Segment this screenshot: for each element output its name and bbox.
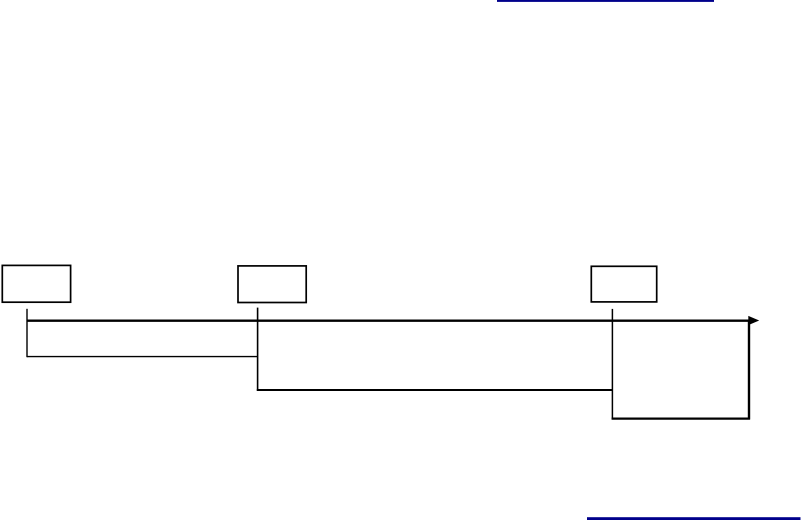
timeline axis (main arrow line) — [27, 320, 750, 322]
hyperlink underline (top of page, cut off) — [497, 0, 714, 2]
box B3 (right milestone box) — [591, 266, 656, 302]
span bracket 3 (under B3, ends at arrow end) — [612, 418, 750, 420]
return vertical up to axis at arrow end — [748, 320, 750, 420]
arrowhead — [748, 316, 759, 325]
box B2 (middle milestone box) — [238, 266, 306, 303]
hyperlink underline (bottom of page, cut off) — [587, 517, 801, 520]
span bracket 1 (under B1, ends below B2) — [27, 356, 258, 358]
connector tick under box B1 — [26, 309, 28, 357]
connector tick under box B2 — [257, 308, 259, 391]
span bracket 2 (under B2, ends below B3) — [257, 389, 613, 391]
connector tick under box B3 — [611, 309, 613, 419]
box B1 (left milestone box) — [2, 265, 70, 302]
